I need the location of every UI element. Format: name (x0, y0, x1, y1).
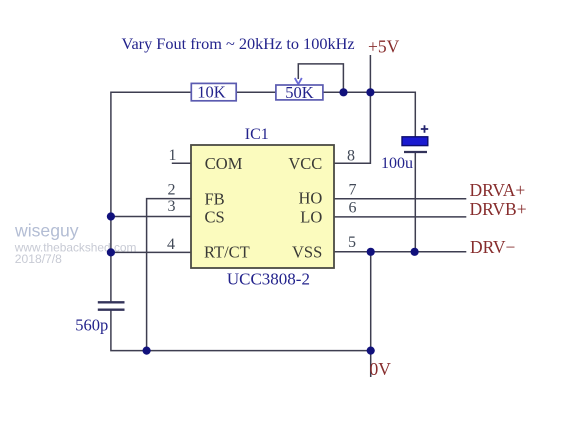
svg-text:2: 2 (168, 182, 176, 199)
junction dot: 0V drop on pin5 net (367, 248, 375, 256)
wire: pin 1 COM stub (172, 162, 191, 164)
svg-text:0V: 0V (370, 359, 392, 379)
svg-text:560p: 560p (75, 316, 108, 335)
potentiometer wiper arrow (295, 78, 302, 84)
svg-text:CS: CS (205, 207, 225, 226)
svg-text:wiseguy: wiseguy (14, 221, 79, 241)
wire: left vertical rail down to 560p (110, 92, 112, 302)
wire: pin 8 VCC up to +5V (334, 55, 370, 163)
svg-text:7: 7 (349, 181, 357, 198)
resistor 10K (191, 83, 236, 102)
wire: top bus from left corner to 10K (111, 91, 191, 93)
junction dot: FB branch on 0V bus (143, 347, 151, 355)
svg-text:COM: COM (205, 154, 243, 173)
svg-text:8: 8 (347, 147, 355, 164)
svg-text:10K: 10K (197, 83, 226, 102)
junction dot: right end of 0V bus (367, 347, 375, 355)
potentiometer 50K (276, 83, 323, 102)
svg-text:100u: 100u (381, 155, 413, 172)
svg-text:4: 4 (167, 236, 175, 253)
junction dot: RT/CT on left rail (107, 248, 115, 256)
svg-text:VSS: VSS (292, 242, 322, 261)
svg-text:RT/CT: RT/CT (204, 243, 250, 262)
wire: pin 6 LO to DRVB+ (334, 216, 466, 218)
capacitor 100u (polarized) (381, 125, 428, 172)
junction dot: +5V rail on top bus (366, 88, 374, 96)
wire: 560p bottom to 0V bus (111, 310, 371, 351)
svg-text:50K: 50K (285, 83, 314, 102)
svg-text:3: 3 (168, 198, 176, 215)
svg-text:IC1: IC1 (245, 126, 269, 143)
wire: FB branch down to 0V bus (147, 199, 191, 351)
svg-text:DRV−: DRV− (470, 237, 516, 257)
junction dot: CS on left rail (107, 212, 115, 220)
svg-text:VCC: VCC (288, 154, 322, 173)
potentiometer wiper loop wire (298, 64, 343, 92)
IC IC1 UCC3808-2 body (191, 126, 334, 288)
wire: pin5 net down to 0V stub (370, 252, 372, 377)
wire: 100u bottom plate down to pin5 net (414, 153, 416, 252)
svg-text:HO: HO (298, 189, 322, 208)
wire: CS to left rail (111, 216, 191, 218)
junction dot: 100u on pin5 net (411, 248, 419, 256)
svg-text:+5V: +5V (368, 36, 400, 56)
svg-text:FB: FB (205, 189, 225, 208)
wire: 10K to 50K (236, 91, 276, 93)
junction dot: pot loop on top bus (339, 88, 347, 96)
svg-text:2018/7/8: 2018/7/8 (15, 252, 62, 266)
watermark wiseguy (14, 221, 137, 266)
svg-text:6: 6 (349, 200, 357, 217)
wire: pin 7 HO to DRVA+ (334, 198, 466, 200)
svg-text:1: 1 (169, 147, 177, 164)
svg-text:UCC3808-2: UCC3808-2 (227, 269, 310, 288)
svg-text:5: 5 (348, 234, 356, 251)
capacitor 560p (75, 302, 124, 334)
wire: RT/CT to left rail (111, 251, 191, 253)
svg-text:Vary Fout from ~ 20kHz to 100k: Vary Fout from ~ 20kHz to 100kHz (122, 34, 355, 53)
svg-text:LO: LO (300, 207, 322, 226)
wire: 50K right to cap corner, down to 100u top plate (323, 92, 415, 137)
svg-text:DRVB+: DRVB+ (470, 199, 527, 219)
wire: pin 5 VSS to DRV- (334, 251, 466, 253)
svg-text:DRVA+: DRVA+ (470, 180, 526, 200)
